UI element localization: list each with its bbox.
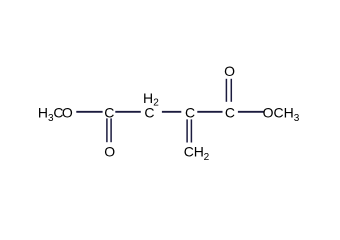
svg-text:C: C — [185, 104, 195, 120]
wire bond H3CO-C1 — [76, 111, 102, 113]
wire bond C3-C4 — [197, 111, 222, 113]
wire bond C2-C3 — [162, 111, 181, 113]
svg-text:C: C — [144, 104, 154, 120]
svg-text:3: 3 — [294, 113, 300, 124]
wire bond C4-OCH3 — [238, 111, 264, 113]
svg-text:O: O — [62, 104, 73, 120]
wire double bond C3=CH2 — [186, 119, 188, 142]
svg-text:C: C — [225, 104, 235, 120]
wire double bond C1=O — [106, 118, 108, 142]
svg-text:2: 2 — [204, 152, 210, 163]
svg-text:O: O — [224, 63, 235, 79]
svg-text:CH: CH — [184, 144, 204, 160]
svg-text:OCH: OCH — [263, 104, 294, 120]
wire double bond C4=O — [225, 79, 227, 102]
svg-text:C: C — [104, 104, 114, 120]
wire bond C1-C2 — [115, 111, 141, 113]
svg-text:H: H — [38, 104, 48, 120]
svg-text:O: O — [104, 144, 115, 160]
